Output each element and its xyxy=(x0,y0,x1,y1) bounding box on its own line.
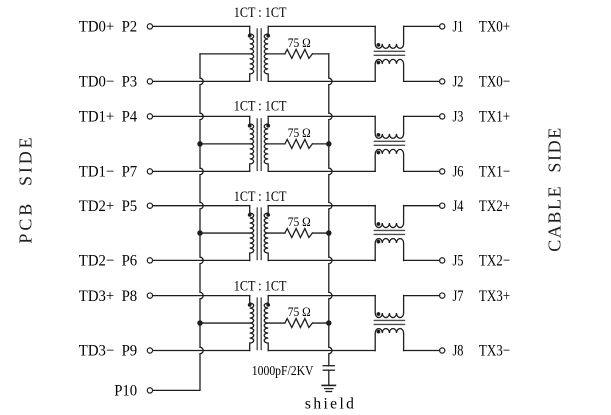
ground (shield / chassis earth) xyxy=(322,385,335,391)
resistor R3 75 ohm from T3 secondary center tap to shield bus xyxy=(268,229,329,238)
wire T3 secondary top to choke L3 xyxy=(268,205,375,207)
label J3 TX1+ xyxy=(453,109,511,126)
transformer T4 polarity dots xyxy=(248,303,270,307)
transformer T1 primary winding (1CT:1CT) xyxy=(250,26,254,81)
svg-text:P10: P10 xyxy=(114,383,137,400)
label TD1+ P4 xyxy=(79,109,137,126)
value label 1CT:1CT for transformer T2 xyxy=(234,98,287,114)
wire TD3− P9 to transformer T4 xyxy=(153,350,250,352)
svg-text:J1: J1 xyxy=(453,19,464,36)
svg-text:75 Ω: 75 Ω xyxy=(288,126,311,140)
common-mode choke L2 core xyxy=(374,141,404,145)
svg-text:TD0− P3: TD0− P3 xyxy=(79,74,137,91)
svg-text:TX2+: TX2+ xyxy=(479,198,510,215)
common-mode choke L1 bottom winding xyxy=(375,59,403,81)
transformer T2 polarity dots xyxy=(248,124,270,128)
label J2 TX0− xyxy=(453,74,511,91)
wire TD1+ P4 to transformer T2 xyxy=(153,115,250,117)
wire choke L3 to pin J4 xyxy=(404,205,440,207)
value label 75 ohm for resistor R3 xyxy=(288,215,311,229)
common-mode choke L3 top winding xyxy=(375,206,403,228)
svg-text:TX2−: TX2− xyxy=(479,253,510,270)
transformer T3 secondary winding xyxy=(264,206,268,261)
value label 75 ohm for resistor R1 xyxy=(288,36,311,50)
transformer T2 secondary winding xyxy=(264,116,268,171)
wire center tap of T2 to P10 bus xyxy=(200,143,250,145)
pin P9 terminal circle xyxy=(147,348,152,353)
label TD0+ P2 xyxy=(79,19,137,36)
common-mode choke L3 bottom winding xyxy=(375,239,403,261)
wire center tap of T3 to P10 bus xyxy=(200,232,250,234)
capacitor C1 1000pF/2KV xyxy=(323,366,334,386)
transformer T4 secondary winding xyxy=(264,296,268,351)
value label 1CT:1CT for transformer T4 xyxy=(234,278,287,294)
svg-text:75 Ω: 75 Ω xyxy=(288,36,311,50)
choke L2 polarity dots xyxy=(377,133,381,154)
pin P10 terminal circle xyxy=(147,388,152,393)
wire T4 secondary top to choke L4 xyxy=(268,295,375,297)
pin P7 terminal circle xyxy=(147,169,152,174)
wire T1 secondary top to choke L1 xyxy=(268,25,375,27)
wire TD0− P3 to transformer T1 xyxy=(153,80,250,82)
svg-text:TX3+: TX3+ xyxy=(479,288,510,305)
pin J8 terminal circle xyxy=(440,348,445,353)
junction node: R4 on shield bus xyxy=(326,320,332,326)
wire T2 secondary top to choke L2 xyxy=(268,115,375,117)
pin J4 terminal circle xyxy=(440,203,445,208)
wire: P10 center-tap bus with crossover hops xyxy=(153,54,204,391)
transformer T3 core xyxy=(257,208,261,259)
svg-text:TD3− P9: TD3− P9 xyxy=(79,343,137,360)
wire center tap of T4 to P10 bus xyxy=(200,322,250,324)
transformer T4 core xyxy=(257,298,261,350)
label TD2− P6 xyxy=(79,253,137,270)
title CABLE SIDE xyxy=(545,126,566,252)
svg-text:TX1−: TX1− xyxy=(479,164,510,181)
common-mode choke L4 bottom winding xyxy=(375,329,403,351)
pin P3 terminal circle xyxy=(147,79,152,84)
pin J6 terminal circle xyxy=(440,169,445,174)
svg-text:TD1− P7: TD1− P7 xyxy=(79,164,137,181)
svg-text:TX3−: TX3− xyxy=(479,343,510,360)
junction node: R2 on shield bus xyxy=(326,141,332,147)
svg-text:TX1+: TX1+ xyxy=(479,109,510,126)
wire choke L1 to pin J1 xyxy=(404,25,440,27)
common-mode choke L1 top winding xyxy=(375,26,403,48)
transformer T2 primary winding (1CT:1CT) xyxy=(250,116,254,171)
svg-text:TD1+ P4: TD1+ P4 xyxy=(79,109,137,126)
svg-text:TD3+ P8: TD3+ P8 xyxy=(79,288,137,305)
wire T3 secondary bottom to choke L3 xyxy=(268,259,375,261)
pin J3 terminal circle xyxy=(440,114,445,119)
label J5 TX2− xyxy=(453,253,511,270)
transformer T1 secondary winding xyxy=(264,26,268,81)
svg-text:1CT : 1CT: 1CT : 1CT xyxy=(234,98,287,114)
svg-text:75 Ω: 75 Ω xyxy=(288,215,311,229)
label TD1− P7 xyxy=(79,164,137,181)
label TD3+ P8 xyxy=(79,288,137,305)
junction node: T4 center tap on P10 bus xyxy=(197,320,203,326)
wire T4 secondary bottom to choke L4 xyxy=(268,350,375,352)
label TD0− P3 xyxy=(79,74,137,91)
wire choke L4 to pin J7 xyxy=(404,295,440,297)
transformer T3 primary winding (1CT:1CT) xyxy=(250,206,254,261)
wire choke L2 to pin J3 xyxy=(404,115,440,117)
svg-text:J5: J5 xyxy=(453,253,464,270)
wire TD2+ P5 to transformer T3 xyxy=(153,205,250,207)
resistor R1 75 ohm from T1 secondary center tap to shield bus xyxy=(268,49,329,58)
transformer T3 polarity dots xyxy=(248,213,270,217)
junction node: R3 on shield bus xyxy=(326,230,332,236)
svg-text:TX0−: TX0− xyxy=(479,74,510,91)
transformer T1 polarity dots xyxy=(248,34,270,38)
svg-text:J7: J7 xyxy=(453,288,464,305)
wire T1 secondary bottom to choke L1 xyxy=(268,80,375,82)
svg-text:75 Ω: 75 Ω xyxy=(288,305,311,319)
label TD3− P9 xyxy=(79,343,137,360)
wire TD1− P7 to transformer T2 xyxy=(153,170,250,172)
wire center tap of T1 to P10 bus (corner) xyxy=(200,53,250,55)
choke L4 polarity dots xyxy=(377,312,381,333)
wire T2 secondary bottom to choke L2 xyxy=(268,170,375,172)
wire: shield termination bus with crossover hops xyxy=(329,54,332,366)
value label 1000pF/2KV for capacitor C1 xyxy=(252,364,314,379)
label J6 TX1− xyxy=(453,164,511,181)
choke L1 polarity dots xyxy=(377,43,381,64)
pin J7 terminal circle xyxy=(440,293,445,298)
resistor R4 75 ohm from T4 secondary center tap to shield bus xyxy=(268,319,329,328)
junction node: T2 center tap on P10 bus xyxy=(197,141,203,147)
svg-text:1000pF/2KV: 1000pF/2KV xyxy=(252,364,314,379)
label J8 TX3− xyxy=(453,343,511,360)
common-mode choke L4 top winding xyxy=(375,296,403,318)
value label 1CT:1CT for transformer T1 xyxy=(234,5,287,21)
choke L3 polarity dots xyxy=(377,222,381,243)
pin J5 terminal circle xyxy=(440,258,445,263)
svg-text:TD0+ P2: TD0+ P2 xyxy=(79,19,137,36)
label J1 TX0+ xyxy=(453,19,511,36)
transformer T4 primary winding (1CT:1CT) xyxy=(250,296,254,351)
pin J1 terminal circle xyxy=(440,24,445,29)
common-mode choke L2 top winding xyxy=(375,116,403,138)
pin P5 terminal circle xyxy=(147,203,152,208)
common-mode choke L2 bottom winding xyxy=(375,149,403,171)
label P10 xyxy=(114,383,137,400)
value label 1CT:1CT for transformer T3 xyxy=(234,189,287,205)
svg-text:1CT : 1CT: 1CT : 1CT xyxy=(234,5,287,21)
svg-text:1CT : 1CT: 1CT : 1CT xyxy=(234,278,287,294)
svg-text:shield: shield xyxy=(305,396,357,413)
value label 75 ohm for resistor R2 xyxy=(288,126,311,140)
label J7 TX3+ xyxy=(453,288,511,305)
transformer T2 core xyxy=(257,119,261,170)
transformer T1 core xyxy=(257,29,261,81)
wire choke L1 to pin J2 xyxy=(404,80,440,82)
wire TD3+ P8 to transformer T4 xyxy=(153,295,250,297)
net label shield xyxy=(305,396,357,413)
svg-text:1CT : 1CT: 1CT : 1CT xyxy=(234,189,287,205)
wire choke L3 to pin J5 xyxy=(404,259,440,261)
svg-text:J4: J4 xyxy=(453,198,464,215)
svg-text:TD2+ P5: TD2+ P5 xyxy=(79,198,137,215)
wire TD2− P6 to transformer T3 xyxy=(153,259,250,261)
pin P6 terminal circle xyxy=(147,258,152,263)
pin J2 terminal circle xyxy=(440,79,445,84)
pin P2 terminal circle xyxy=(147,24,152,29)
svg-text:J8: J8 xyxy=(453,343,464,360)
svg-text:J3: J3 xyxy=(453,109,464,126)
svg-text:J2: J2 xyxy=(453,74,464,91)
value label 75 ohm for resistor R4 xyxy=(288,305,311,319)
wire choke L2 to pin J6 xyxy=(404,170,440,172)
svg-text:J6: J6 xyxy=(453,164,464,181)
pin P4 terminal circle xyxy=(147,114,152,119)
common-mode choke L4 core xyxy=(374,320,404,324)
junction node: T3 center tap on P10 bus xyxy=(197,230,203,236)
pin P8 terminal circle xyxy=(147,293,152,298)
svg-text:TD2− P6: TD2− P6 xyxy=(79,253,137,270)
label J4 TX2+ xyxy=(453,198,511,215)
common-mode choke L1 core xyxy=(374,51,404,55)
title PCB SIDE xyxy=(16,134,37,243)
common-mode choke L3 core xyxy=(374,230,404,234)
svg-text:TX0+: TX0+ xyxy=(479,19,510,36)
wire choke L4 to pin J8 xyxy=(404,350,440,352)
wire TD0+ P2 to transformer T1 xyxy=(153,25,250,27)
label TD2+ P5 xyxy=(79,198,137,215)
resistor R2 75 ohm from T2 secondary center tap to shield bus xyxy=(268,139,329,148)
